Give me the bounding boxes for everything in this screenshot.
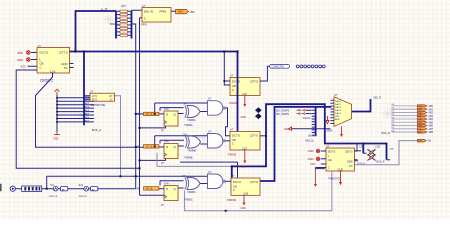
svg-text:U?: U?: [230, 74, 234, 78]
svg-text:BUS_A: BUS_A: [358, 162, 366, 165]
svg-text:AB: AB: [137, 113, 141, 116]
svg-text:QD7:0: QD7:0: [345, 150, 353, 154]
svg-text:T?C: T?C: [182, 175, 187, 177]
svg-text:R? 1K: R? 1K: [146, 114, 153, 116]
svg-text:AGD: AGD: [335, 118, 340, 121]
svg-text:D: D: [166, 145, 168, 149]
svg-text:74HC573: 74HC573: [328, 177, 340, 181]
svg-text:w_JT: w_JT: [101, 7, 108, 11]
svg-text:DAC4: DAC4: [335, 112, 342, 115]
svg-text:U?: U?: [334, 93, 338, 97]
svg-text:74S86B: 74S86B: [184, 156, 193, 159]
svg-text:D: D: [166, 187, 168, 191]
svg-text:GND: GND: [347, 159, 353, 163]
svg-text:DAC3: DAC3: [335, 109, 342, 112]
svg-text:E21: E21: [79, 184, 84, 187]
svg-text:DAC1: DAC1: [335, 103, 342, 106]
svg-text:C3R: C3R: [389, 149, 394, 151]
svg-text:AB8: AB8: [428, 131, 433, 134]
svg-text:T21: T21: [50, 184, 55, 187]
svg-text:U?A: U?A: [164, 183, 169, 186]
svg-text:MCL2L: MCL2L: [306, 138, 315, 142]
svg-text:C: C: [232, 142, 234, 146]
svg-text:C3B: C3B: [376, 147, 381, 149]
svg-text:DC7:0: DC7:0: [233, 180, 241, 184]
svg-text:AB: AB: [137, 146, 141, 149]
svg-text:C: C: [233, 188, 235, 192]
svg-text:DACS: DACS: [303, 116, 310, 120]
svg-text:VCC: VCC: [310, 162, 316, 166]
svg-text:C6R7CB: C6R7CB: [78, 196, 87, 198]
svg-text:B7:0: B7:0: [92, 98, 98, 101]
svg-text:PDK05L: PDK05L: [227, 198, 237, 202]
svg-text:U?: U?: [231, 174, 235, 178]
svg-text:DC7:0: DC7:0: [232, 80, 240, 84]
svg-text:U?: U?: [230, 128, 234, 132]
svg-text:BOL_A: BOL_A: [110, 22, 119, 26]
svg-text:AN: AN: [418, 140, 421, 143]
svg-text:CAN0CTRL: CAN0CTRL: [272, 65, 285, 68]
svg-text:QT7:0: QT7:0: [250, 180, 258, 184]
svg-text:CLK: CLK: [50, 69, 56, 73]
svg-text:SW_SWAP1: SW_SWAP1: [276, 113, 290, 116]
svg-text:CLK: CLK: [242, 92, 247, 96]
svg-text:RP?: RP?: [122, 6, 127, 8]
svg-text:T?A: T?A: [182, 102, 187, 105]
svg-text:GND: GND: [241, 207, 247, 210]
svg-text:DAC0: DAC0: [335, 100, 342, 103]
svg-text:C8051F2: C8051F2: [40, 79, 53, 83]
svg-text:QT7:0: QT7:0: [250, 80, 258, 84]
svg-text:BUS_R: BUS_R: [309, 134, 318, 138]
svg-text:DC7:0: DC7:0: [232, 134, 240, 138]
svg-text:PC: PC: [349, 164, 353, 168]
svg-text:CLB: CLB: [243, 191, 248, 195]
svg-text:GND: GND: [53, 137, 59, 140]
svg-text:D: D: [166, 113, 168, 117]
svg-text:QT7:0: QT7:0: [250, 134, 258, 138]
svg-text:AM: AM: [190, 10, 195, 14]
svg-text:MUX: MUX: [327, 129, 333, 133]
svg-text:U?: U?: [38, 44, 42, 48]
svg-text:C: C: [232, 88, 234, 92]
svg-text:U?A: U?A: [164, 141, 169, 144]
svg-text:AN: AN: [428, 140, 432, 143]
svg-text:R? 1K: R? 1K: [146, 147, 153, 149]
svg-text:GND: GND: [241, 116, 247, 119]
svg-text:GND: GND: [308, 149, 314, 153]
svg-text:U?A: U?A: [164, 108, 169, 111]
svg-text:GND: GND: [17, 51, 23, 55]
svg-text:C6R7CA: C6R7CA: [49, 195, 58, 198]
svg-text:U?: U?: [142, 4, 146, 8]
svg-text:OE: OE: [328, 158, 332, 162]
svg-text:D[0..7]: D[0..7]: [374, 95, 382, 99]
svg-text:PL: PL: [64, 66, 68, 70]
svg-text:DC7:0: DC7:0: [40, 51, 49, 55]
svg-text:74S86C: 74S86C: [184, 198, 193, 201]
svg-text:PPG: PPG: [141, 23, 147, 27]
svg-text:74S86B: 74S86B: [188, 150, 197, 153]
svg-text:GND: GND: [17, 58, 23, 62]
svg-text:VRF: VRF: [335, 116, 340, 118]
svg-text:GND: GND: [308, 157, 314, 161]
svg-text:C3A: C3A: [359, 146, 364, 149]
svg-text:CB: CB: [233, 185, 237, 189]
svg-text:74S86A: 74S86A: [184, 124, 193, 127]
svg-text:PPM: PPM: [160, 9, 167, 13]
svg-text:QT7:0: QT7:0: [59, 51, 68, 55]
svg-text:T?B: T?B: [183, 134, 188, 136]
svg-text:C: C: [40, 66, 42, 70]
svg-text:R? 1K: R? 1K: [146, 189, 153, 191]
svg-text:74S86A: 74S86A: [187, 119, 196, 122]
svg-text:PDK05: PDK05: [228, 153, 237, 157]
svg-text:C: C: [144, 16, 146, 20]
svg-text:74S86C: 74S86C: [187, 191, 196, 194]
svg-text:VCC: VCC: [21, 64, 27, 68]
svg-text:C: C: [328, 166, 330, 170]
svg-text:CB: CB: [232, 138, 236, 142]
svg-text:AB: AB: [137, 188, 141, 191]
svg-text:GND: GND: [241, 165, 247, 168]
svg-text:DD7:0: DD7:0: [328, 150, 336, 154]
svg-text:U?: U?: [326, 144, 330, 148]
svg-text:D[0..4]: D[0..4]: [144, 9, 153, 13]
svg-text:COMPOSE: COMPOSE: [91, 103, 105, 107]
svg-text:BUS_R: BUS_R: [377, 160, 385, 163]
svg-text:DAC2: DAC2: [335, 106, 342, 109]
svg-text:PA0: PA0: [178, 10, 183, 14]
svg-text:BUS_A: BUS_A: [92, 128, 101, 132]
svg-text:CLK: CLK: [242, 146, 247, 150]
svg-text:CB: CB: [232, 84, 236, 88]
svg-text:BUS_R: BUS_R: [382, 131, 391, 135]
